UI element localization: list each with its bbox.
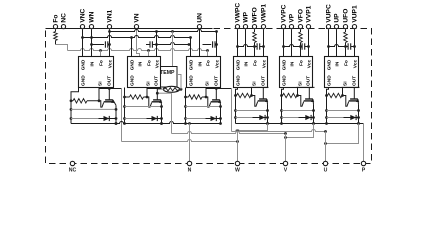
svg-text:Fo: Fo — [344, 60, 350, 66]
wire U rail (low side) — [232, 130, 326, 132]
wire Q3 emitter — [220, 105, 222, 123]
wire+capacitor CW (group rail) — [238, 45, 258, 47]
svg-text:Si: Si — [205, 81, 211, 86]
pin V (power terminal) — [283, 161, 287, 165]
svg-text:GND: GND — [130, 59, 136, 70]
svg-text:Si: Si — [252, 81, 258, 86]
svg-text:Si: Si — [98, 81, 104, 86]
wire VN vertical — [137, 29, 140, 56]
pin WFO — [252, 25, 256, 29]
resistor Q6 gate — [327, 95, 328, 97]
capacitor C3 (B3 Vcc) — [203, 44, 212, 46]
wire Q6 left rail — [327, 88, 329, 124]
wire Q2 collector route (V) — [157, 92, 171, 94]
svg-text:NC: NC — [69, 168, 77, 174]
transistor Q3 IGBT — [212, 99, 220, 101]
svg-text:N: N — [188, 168, 192, 174]
wire top edge N-side — [46, 28, 213, 30]
wire top edge P-group — [326, 28, 348, 30]
wire V drop — [285, 134, 287, 162]
resistor R-Fo (N-side fault pull-up) — [55, 29, 57, 31]
resistor Q2 gate — [125, 96, 130, 98]
wire Q4 kelvin — [236, 110, 268, 112]
svg-text:GND: GND — [81, 75, 87, 86]
wire Q4 emitter — [267, 104, 269, 123]
pin VWP1 — [261, 25, 265, 29]
svg-text:IN: IN — [290, 61, 296, 66]
svg-text:Fo: Fo — [53, 15, 60, 23]
wire TEMP link — [177, 75, 181, 90]
wire Q1 driver OUT stub — [98, 88, 100, 101]
svg-text:UN: UN — [197, 13, 204, 23]
wire thermistor right — [180, 88, 181, 90]
pin U (power terminal) — [323, 161, 327, 165]
svg-text:W: W — [235, 168, 240, 174]
svg-text:Vcc: Vcc — [215, 59, 221, 68]
wire+capacitor CV (group rail) — [284, 45, 303, 47]
svg-text:Si: Si — [146, 81, 152, 86]
wire V rail (high side) — [286, 124, 314, 138]
svg-text:WFO: WFO — [252, 7, 259, 22]
wire collector bar (P-side) — [297, 86, 315, 88]
wire Q5 emitter — [313, 104, 315, 123]
pin VN — [134, 25, 138, 29]
wire VWPC vertical — [237, 29, 239, 56]
wire Q5 gate feed — [297, 96, 304, 107]
wire+capacitor CU (group rail) — [329, 45, 349, 47]
capacitor C2 (B2 Vcc) — [146, 44, 150, 46]
wire TEMP vertical — [172, 32, 174, 67]
svg-text:VVP1: VVP1 — [306, 5, 313, 22]
wire Q2 driver OUT stub — [146, 88, 148, 98]
resistor R-UFO (fault pull-up) — [345, 29, 347, 32]
svg-text:OUT: OUT — [261, 76, 267, 86]
wire Q2 emitter — [161, 105, 163, 123]
svg-text:OUT: OUT — [352, 76, 358, 86]
svg-text:VWPC: VWPC — [235, 3, 242, 23]
svg-text:Fo: Fo — [99, 60, 105, 66]
svg-text:Si: Si — [343, 81, 349, 86]
resistor Q5 gate — [282, 95, 283, 97]
svg-text:GND: GND — [282, 59, 288, 70]
svg-text:OUT: OUT — [107, 76, 113, 86]
wire B2 Fo stub — [148, 51, 150, 57]
pin VUP1 — [352, 25, 356, 29]
wire thermistor left — [158, 88, 163, 90]
wire WP vertical — [245, 29, 247, 56]
svg-text:OUT: OUT — [154, 76, 160, 86]
driver IC U5 (P-side) — [280, 57, 313, 88]
svg-text:P: P — [362, 168, 366, 174]
svg-text:VUPC: VUPC — [326, 4, 333, 23]
wire Q3 gate feed — [202, 97, 211, 107]
svg-text:IN: IN — [138, 61, 144, 66]
wire W drop — [237, 131, 239, 162]
pin N (power terminal) — [187, 161, 191, 165]
svg-text:IN: IN — [198, 61, 204, 66]
wire VNC vertical — [82, 29, 84, 56]
diode Q3 freewheel — [186, 118, 221, 120]
wire UN vertical — [199, 29, 201, 56]
pin VN1 — [107, 25, 111, 29]
wire Q2 left rail — [124, 88, 126, 124]
wire B2 Vcc stub — [156, 32, 158, 57]
wire Q6 gate feed — [342, 96, 349, 107]
pin UN — [197, 25, 201, 29]
thermistor (oval with zigzag) — [163, 86, 179, 92]
capacitor C1 (WN-VN1) — [92, 44, 105, 46]
wire B3 Fo stub — [207, 51, 209, 57]
svg-text:Vcc: Vcc — [262, 59, 268, 68]
transistor Q6 IGBT — [350, 98, 358, 100]
driver IC U4 (P-side) — [234, 57, 268, 88]
wire Fo rail (to driver Fo inputs) — [68, 49, 208, 51]
svg-text:GND: GND — [81, 59, 87, 70]
wire WN vertical — [91, 29, 93, 56]
svg-text:Si: Si — [298, 81, 304, 86]
pin VVP1 — [306, 25, 310, 29]
diode Q2 freewheel — [125, 118, 162, 120]
diode Q1 freewheel — [71, 118, 116, 120]
svg-text:WP: WP — [243, 11, 250, 22]
wire Q2 kelvin — [125, 106, 162, 108]
wire VUPC vertical — [328, 29, 330, 56]
wire N drop — [189, 124, 191, 162]
wire VWP1 vertical — [263, 29, 265, 56]
svg-text:Fo: Fo — [299, 60, 305, 66]
wire Q5 left rail — [282, 88, 284, 124]
pin VP — [289, 25, 293, 29]
wire B3 Vcc stub — [216, 32, 218, 57]
driver IC U2 (N-side) — [128, 57, 161, 88]
wire Q5 driver OUT stub — [297, 88, 299, 96]
wire V rail (low side) — [171, 93, 173, 133]
pin WN — [89, 25, 93, 29]
wire Q4 driver OUT stub — [251, 88, 253, 96]
pin NC (power terminal) — [70, 161, 74, 165]
diode Q5 freewheel — [282, 117, 314, 119]
wire W rail (low side) — [121, 124, 123, 142]
svg-text:GND: GND — [130, 75, 136, 86]
wire VUP1 vertical — [354, 29, 356, 56]
wire P drop — [363, 124, 365, 162]
svg-text:UFO: UFO — [343, 9, 350, 23]
wire Q1 gate feed — [87, 101, 104, 107]
wire Q3 collector bar — [206, 88, 232, 90]
svg-text:Fo: Fo — [206, 60, 212, 66]
wire Q3 collector drop (U) — [231, 89, 233, 132]
pin Fo — [53, 25, 57, 29]
svg-text:GND: GND — [189, 75, 195, 86]
svg-text:IN: IN — [335, 61, 341, 66]
resistor R-WFO (fault pull-up) — [254, 29, 256, 32]
wire B1 Fo stub — [100, 51, 102, 57]
svg-text:GND: GND — [236, 75, 242, 86]
wire Q5 kelvin — [282, 110, 314, 112]
pin VWPC — [235, 25, 239, 29]
svg-text:VN1: VN1 — [107, 9, 114, 22]
wire VP vertical — [291, 29, 293, 56]
driver IC U1 (N-side) — [79, 57, 114, 88]
wire Q6 emitter — [358, 104, 360, 123]
transistor Q4 IGBT — [259, 98, 267, 100]
svg-text:GND: GND — [327, 75, 333, 86]
transistor Q2 IGBT — [153, 99, 161, 101]
wire B3 GND stub — [190, 38, 192, 57]
resistor Q1 gate — [71, 100, 73, 102]
pin UP — [334, 25, 338, 29]
pin VNC — [80, 25, 84, 29]
wire P rail — [236, 123, 364, 125]
wire collector bar (P-side) — [342, 86, 360, 88]
wire Q2 collector bar — [147, 88, 162, 90]
wire Q1 kelvin — [71, 108, 116, 110]
svg-text:VN: VN — [134, 13, 141, 22]
wire U drop — [325, 132, 327, 162]
svg-text:U: U — [324, 168, 328, 174]
wire N rail — [71, 122, 221, 124]
resistor Q3 gate — [186, 96, 189, 98]
wire collector bar (P-side) — [251, 86, 269, 88]
wire VNC rail (GND to drivers) — [83, 36, 191, 38]
diode Q6 freewheel — [327, 117, 359, 119]
svg-text:VP: VP — [289, 13, 296, 22]
svg-text:NC: NC — [61, 13, 68, 23]
wire U rail (high side) — [326, 124, 359, 144]
pin P (power terminal) — [361, 161, 365, 165]
svg-text:V: V — [284, 168, 288, 174]
pin UFO — [343, 25, 347, 29]
wire top edge P-group — [235, 28, 257, 30]
pin VVPC — [281, 25, 285, 29]
svg-text:GND: GND — [282, 75, 288, 86]
wire top edge P-group — [281, 28, 303, 30]
driver IC U3 (N-side) — [187, 57, 221, 88]
wire B2 GND stub — [131, 38, 133, 57]
svg-text:Fo: Fo — [147, 60, 153, 66]
wire Q3 left rail — [185, 88, 187, 124]
pin W (power terminal) — [235, 161, 239, 165]
block TEMP sensor — [158, 67, 178, 88]
wire Q1 left rail — [71, 88, 79, 124]
wire VN1 vertical — [109, 29, 111, 56]
resistor Q4 gate — [236, 95, 237, 97]
svg-text:WN: WN — [89, 11, 96, 22]
pin VFO — [298, 25, 302, 29]
wire W rail (high side) — [238, 124, 268, 131]
svg-text:TEMP: TEMP — [160, 70, 175, 76]
svg-text:OUT: OUT — [214, 76, 220, 86]
svg-text:IN: IN — [90, 61, 96, 66]
svg-text:VWP1: VWP1 — [261, 4, 268, 23]
driver IC U6 (P-side) — [325, 57, 359, 88]
svg-text:Vcc: Vcc — [353, 59, 359, 68]
svg-text:Vcc: Vcc — [155, 59, 161, 68]
svg-text:GND: GND — [189, 59, 195, 70]
transistor Q5 IGBT — [305, 98, 313, 100]
transistor Q1 IGBT — [105, 99, 113, 101]
resistor R-VFO (fault pull-up) — [300, 29, 302, 32]
wire Q1 collector drop (W) — [121, 89, 123, 124]
wire UP vertical — [336, 29, 338, 56]
wire Q1 emitter — [115, 105, 117, 123]
svg-text:UP: UP — [334, 13, 341, 23]
svg-text:VFO: VFO — [298, 9, 305, 23]
wire Q2 gate feed — [144, 97, 152, 107]
svg-text:VUP1: VUP1 — [352, 5, 359, 23]
svg-text:GND: GND — [327, 59, 333, 70]
svg-text:IN: IN — [244, 61, 250, 66]
wire Q6 kelvin — [327, 110, 359, 112]
svg-text:VNC: VNC — [80, 8, 87, 22]
svg-text:Fo: Fo — [253, 60, 259, 66]
pin WP — [243, 25, 247, 29]
svg-text:OUT: OUT — [306, 76, 312, 86]
svg-text:Vcc: Vcc — [307, 59, 313, 68]
wire Q6 driver OUT stub — [342, 88, 344, 96]
wire VVP1 vertical — [308, 29, 310, 56]
wire Q4 left rail — [236, 88, 238, 124]
svg-text:Vcc: Vcc — [108, 59, 114, 68]
svg-text:VVPC: VVPC — [281, 4, 288, 22]
wire Q3 kelvin — [186, 106, 221, 108]
wire Q4 gate feed — [251, 96, 258, 107]
pin NC — [61, 25, 65, 29]
svg-text:GND: GND — [236, 59, 242, 70]
wire Fo staircase — [56, 45, 68, 51]
wire Q3 driver OUT stub — [205, 88, 207, 98]
wire VN1 rail (Vcc to drivers) — [110, 30, 217, 32]
module outline (dashed border) — [46, 29, 372, 164]
diode Q4 freewheel — [236, 117, 268, 119]
pin VUPC — [326, 25, 330, 29]
wire Q1 collector bar — [99, 88, 122, 90]
wire VVPC vertical — [283, 29, 285, 56]
